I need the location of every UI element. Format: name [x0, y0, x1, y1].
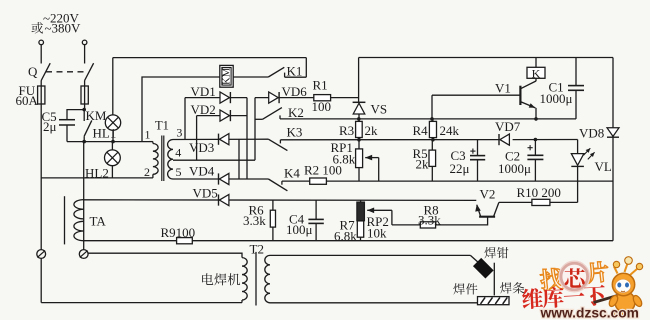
svg-text:6.8k: 6.8k	[333, 152, 356, 167]
svg-text:2k: 2k	[365, 123, 379, 138]
svg-text:5: 5	[176, 165, 182, 179]
svg-text:1: 1	[145, 128, 151, 142]
svg-text:R10 200: R10 200	[517, 185, 561, 200]
svg-text:HL1: HL1	[93, 125, 117, 140]
svg-text:VS: VS	[371, 102, 388, 117]
svg-text:VD1: VD1	[191, 84, 216, 99]
svg-text:4: 4	[175, 145, 181, 159]
svg-text:VD4: VD4	[189, 164, 215, 179]
svg-text:KM: KM	[86, 108, 107, 123]
svg-text:T1: T1	[155, 119, 169, 133]
svg-text:22μ: 22μ	[450, 161, 470, 176]
svg-text:VL: VL	[595, 159, 612, 174]
svg-text:V2: V2	[480, 186, 496, 201]
svg-text:TA: TA	[90, 214, 107, 229]
svg-text:R9100: R9100	[161, 225, 196, 240]
svg-text:R3: R3	[339, 123, 354, 138]
svg-text:2μ: 2μ	[43, 119, 57, 134]
svg-text:K4: K4	[284, 166, 300, 181]
svg-text:Q: Q	[28, 64, 38, 79]
svg-text:www.dzsc.com: www.dzsc.com	[540, 306, 639, 320]
svg-text:1000μ: 1000μ	[540, 91, 573, 106]
svg-text:~380V: ~380V	[45, 21, 82, 36]
svg-text:VD8: VD8	[579, 126, 604, 141]
svg-text:K: K	[532, 66, 541, 80]
svg-text:T2: T2	[250, 242, 264, 257]
svg-text:R1: R1	[313, 78, 328, 93]
svg-text:KM: KM	[221, 67, 233, 85]
svg-text:3.3k: 3.3k	[418, 212, 441, 227]
svg-text:VD2: VD2	[191, 102, 216, 117]
svg-text:10k: 10k	[367, 226, 387, 241]
svg-text:HL2: HL2	[85, 166, 109, 181]
svg-text:3: 3	[176, 125, 182, 139]
svg-text:VD5: VD5	[193, 185, 218, 200]
svg-text:6.8k: 6.8k	[334, 228, 357, 243]
svg-text:60A: 60A	[16, 93, 39, 108]
svg-text:1000μ: 1000μ	[498, 161, 531, 176]
svg-text:2: 2	[144, 165, 150, 179]
svg-text:100μ: 100μ	[286, 222, 313, 237]
svg-text:2k: 2k	[416, 156, 430, 171]
svg-text:V1: V1	[495, 81, 511, 96]
svg-text:K2: K2	[288, 105, 304, 120]
svg-text:K3: K3	[287, 125, 303, 140]
svg-text:100: 100	[312, 99, 332, 114]
svg-text:VD3: VD3	[189, 140, 214, 155]
svg-text:VD6: VD6	[282, 84, 308, 99]
svg-text:K1: K1	[287, 64, 303, 79]
svg-text:3.3k: 3.3k	[243, 213, 266, 228]
svg-text:24k: 24k	[440, 123, 460, 138]
svg-text:R4: R4	[413, 123, 429, 138]
svg-text:VD7: VD7	[495, 119, 521, 134]
